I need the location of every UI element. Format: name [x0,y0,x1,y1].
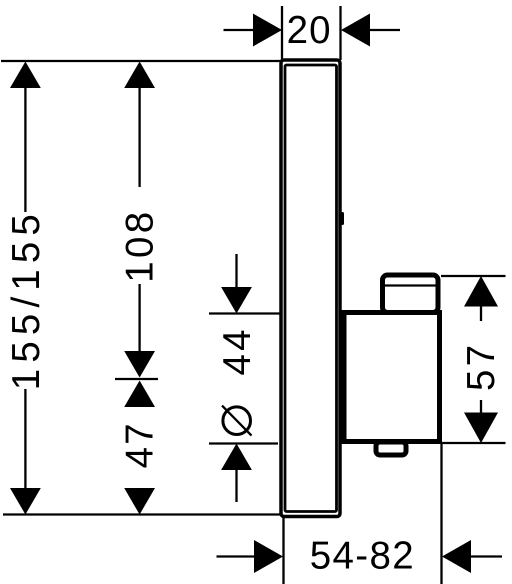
dim 20: right arrowhead [341,14,370,47]
svg-text:57: 57 [460,345,503,391]
faceplate outer outline [281,60,340,517]
dim 20: left extension line [281,6,283,60]
handle button top [383,275,439,313]
dim 57: bottom arrowhead (down) [464,413,498,444]
dim 108: lower line [138,284,140,354]
dim 44: diameter symbol circle [223,407,251,435]
dim 108: bottom arrowhead [124,351,155,378]
plate right-edge pivot bump [341,212,344,225]
dim 57: lower stub line [480,400,482,414]
svg-text:47: 47 [119,423,162,468]
svg-text:20: 20 [287,9,331,52]
dim 20: right extension line [339,6,341,60]
dim 54-82: left arrowhead [254,540,283,573]
dim 47: bottom arrowhead [124,488,155,515]
faceplate inner outline [285,65,337,512]
dim 155/155: bottom arrowhead [10,488,41,515]
svg-text:44: 44 [216,330,259,376]
dim 155/155: lower line [24,389,26,490]
svg-text:108: 108 [119,212,162,283]
dim 47: top arrowhead [124,381,155,408]
dim 54-82: right arrow tail [470,555,502,557]
dim 54-82: left arrow tail [217,555,256,557]
dim 20: left arrow tail [224,29,255,31]
dim 57: bottom extension line [441,442,506,444]
handle body [344,313,440,442]
svg-text:54-82: 54-82 [310,534,414,577]
dim 44: top tick [209,312,280,314]
dim 44: diameter symbol slash [222,406,252,436]
handle bottom tab [376,442,406,455]
bottom extension line from handle right edge [440,444,442,584]
dim 54-82: right arrowhead [442,540,471,573]
dim 57: top arrowhead (up) [464,276,498,307]
dim 44: bottom tick [209,442,278,444]
centre tick of handle axis [115,378,158,380]
dim 155/155: upper line [24,87,26,212]
dim 155/155: top arrowhead [10,62,41,89]
dim 44: top arrowhead (down) [221,287,252,314]
bottom extension line left (plate bottom level) [3,513,281,515]
dim 20: left arrowhead [253,14,282,47]
handle button inner line [384,284,437,286]
bottom extension line from plate left edge [282,517,284,584]
dim 57: upper stub line [480,306,482,322]
dim 44: bottom arrowhead (up) [221,444,252,471]
dim 44: upper tail line [235,254,237,290]
top extension line left (plate top level) [1,60,281,62]
dim 57: top extension line [441,275,506,277]
svg-text:155/155: 155/155 [5,214,48,390]
dim 44: lower tail line [235,469,237,502]
dim 108: top arrowhead [124,62,155,89]
dim 108: upper line [138,87,140,187]
dim 20: right arrow tail [369,29,400,31]
